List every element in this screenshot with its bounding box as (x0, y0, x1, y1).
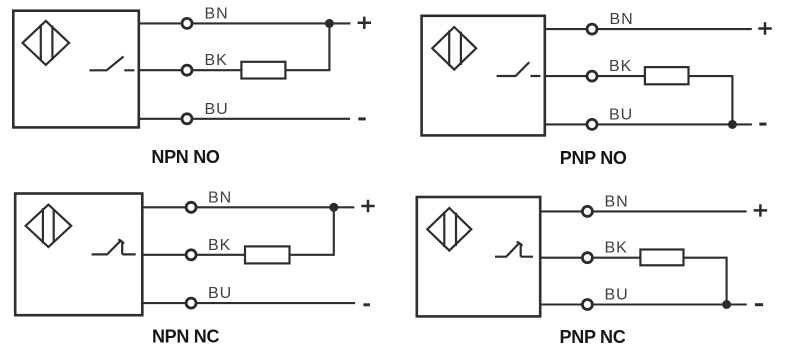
minus terminal (358, 117, 365, 120)
wire BN from box to terminal (139, 22, 182, 24)
wire BK from box to terminal (142, 254, 185, 256)
plus terminal (358, 17, 371, 29)
sensor diamond symbol (427, 208, 471, 251)
svg-text:BK: BK (605, 240, 628, 257)
NC switch contact (92, 239, 136, 254)
terminal circle BK (186, 250, 196, 260)
wire BN to plus (197, 206, 354, 208)
wire from load to junction (290, 207, 334, 255)
minus terminal (755, 303, 763, 306)
resistor load R (645, 67, 689, 84)
wire BU to minus (593, 303, 747, 305)
wire BK to load (593, 257, 640, 259)
wire from load down to BU junction (684, 258, 727, 305)
wire from load down to BU junction (689, 76, 733, 124)
sensor box (NPN NC) (15, 194, 142, 316)
terminal circle BN (582, 206, 592, 216)
minus terminal (363, 303, 370, 306)
resistor load R (245, 246, 290, 263)
wire BK to load (197, 254, 245, 256)
wire BK to load (193, 69, 242, 71)
wire BU from box to terminal (142, 302, 185, 304)
NO switch contact (497, 62, 541, 76)
terminal circle BU (587, 119, 597, 129)
wire BN to plus (193, 22, 351, 24)
wire from load to junction (285, 23, 329, 70)
sensor box (PNP NO) (422, 16, 545, 136)
terminal circle BK (587, 71, 597, 81)
terminal circle BU (582, 300, 592, 310)
svg-text:BU: BU (205, 101, 229, 118)
svg-text:BK: BK (205, 52, 228, 69)
terminal circle BK (582, 253, 592, 263)
terminal circle BK (182, 65, 192, 75)
wire BK to load (598, 75, 645, 77)
wire BN from box to terminal (540, 210, 581, 212)
terminal circle BN (587, 24, 597, 34)
wire BK from box to terminal (139, 69, 182, 71)
wire BN from box to terminal (545, 28, 586, 30)
resistor load R (640, 250, 683, 266)
terminal circle BU (186, 298, 196, 308)
svg-text:BN: BN (605, 193, 629, 210)
junction node on BN (325, 19, 334, 28)
terminal circle BU (182, 114, 192, 124)
sensor box (PNP NC) (417, 197, 540, 316)
junction node on BU (722, 300, 731, 309)
wire BU to minus (193, 118, 350, 120)
wire BK from box to terminal (545, 75, 586, 77)
svg-text:BU: BU (208, 285, 232, 302)
terminal circle BN (182, 18, 192, 28)
wire BU to minus (197, 302, 355, 304)
sensor diamond symbol (26, 205, 72, 247)
svg-text:NPN NC: NPN NC (152, 326, 220, 346)
sensor box (NPN NO) (13, 11, 139, 128)
plus terminal (754, 204, 767, 216)
svg-text:BN: BN (208, 189, 232, 206)
svg-text:PNP NO: PNP NO (560, 148, 627, 168)
terminal circle BN (186, 202, 196, 212)
minus terminal (759, 123, 766, 126)
wire BN to plus (598, 28, 752, 30)
svg-text:BU: BU (605, 287, 629, 304)
wire BU from box to terminal (545, 123, 586, 125)
sensor diamond symbol (432, 27, 476, 70)
svg-text:BU: BU (609, 106, 633, 123)
junction node on BU (728, 120, 737, 129)
sensor diamond symbol (23, 21, 70, 65)
wire BU from box to terminal (540, 303, 581, 305)
NC switch contact (495, 242, 533, 257)
wire BU to minus (598, 123, 752, 125)
resistor load R (241, 62, 285, 79)
plus terminal (758, 22, 771, 34)
wire BN from box to terminal (142, 206, 185, 208)
junction node on BN (329, 203, 338, 212)
wire BK from box to terminal (540, 257, 581, 259)
wire BN to plus (593, 210, 747, 212)
svg-text:BN: BN (610, 11, 634, 28)
svg-text:NPN NO: NPN NO (151, 147, 220, 167)
svg-text:BK: BK (609, 58, 632, 75)
svg-text:PNP NC: PNP NC (560, 327, 626, 347)
NO switch contact (89, 57, 134, 71)
plus terminal (361, 200, 374, 212)
svg-text:BN: BN (205, 6, 229, 23)
wire BU from box to terminal (139, 118, 182, 120)
svg-text:BK: BK (208, 237, 231, 254)
